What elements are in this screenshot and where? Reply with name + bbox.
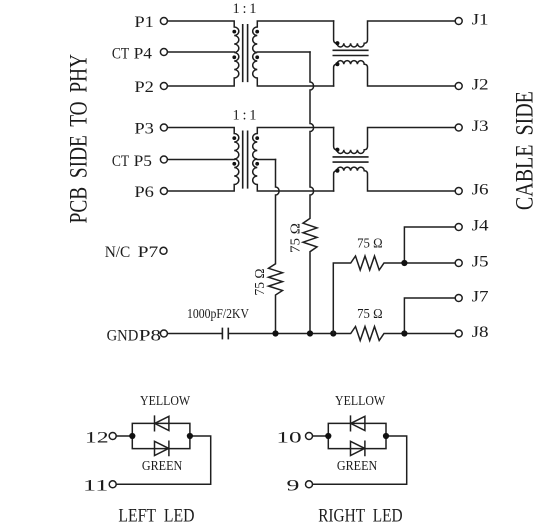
svg-text:J7: J7 xyxy=(472,288,489,306)
svg-text:RIGHT LED: RIGHT LED xyxy=(318,507,402,527)
svg-text:J8: J8 xyxy=(472,323,489,341)
svg-text:LEFT LED: LEFT LED xyxy=(118,507,194,527)
svg-text:75 Ω: 75 Ω xyxy=(357,306,383,321)
svg-text:N/C: N/C xyxy=(105,243,131,261)
svg-text:CT: CT xyxy=(112,45,129,63)
svg-text:P3: P3 xyxy=(134,120,154,138)
svg-text:CT: CT xyxy=(112,152,129,170)
svg-text:75 Ω: 75 Ω xyxy=(252,269,267,296)
svg-text:J5: J5 xyxy=(472,253,489,271)
svg-text:GND: GND xyxy=(107,326,139,344)
svg-text:YELLOW: YELLOW xyxy=(140,394,191,409)
svg-text:J6: J6 xyxy=(472,181,489,199)
svg-text:P1: P1 xyxy=(134,13,154,31)
svg-text:1:1: 1:1 xyxy=(233,1,257,17)
svg-text:12: 12 xyxy=(85,428,109,446)
svg-text:GREEN: GREEN xyxy=(142,459,182,474)
svg-text:75 Ω: 75 Ω xyxy=(287,223,302,253)
svg-text:75 Ω: 75 Ω xyxy=(357,236,383,251)
svg-text:P5: P5 xyxy=(134,152,152,170)
svg-text:9: 9 xyxy=(287,477,300,495)
svg-text:J1: J1 xyxy=(472,11,489,29)
svg-text:J3: J3 xyxy=(472,117,489,135)
svg-text:P8: P8 xyxy=(139,326,161,344)
svg-text:10: 10 xyxy=(276,428,301,446)
svg-text:P4: P4 xyxy=(134,45,152,63)
svg-text:P7: P7 xyxy=(138,243,159,261)
svg-text:GREEN: GREEN xyxy=(337,459,377,474)
svg-text:P6: P6 xyxy=(134,183,154,201)
svg-text:CABLE SIDE: CABLE SIDE xyxy=(510,91,538,210)
svg-text:J4: J4 xyxy=(472,217,489,235)
svg-text:1000pF/2KV: 1000pF/2KV xyxy=(187,306,249,321)
svg-text:YELLOW: YELLOW xyxy=(335,394,386,409)
svg-text:1:1: 1:1 xyxy=(233,107,257,123)
svg-text:J2: J2 xyxy=(472,76,489,94)
svg-text:PCB SIDE TO PHY: PCB SIDE TO PHY xyxy=(64,54,92,223)
svg-text:P2: P2 xyxy=(134,78,154,96)
svg-text:11: 11 xyxy=(83,477,109,495)
